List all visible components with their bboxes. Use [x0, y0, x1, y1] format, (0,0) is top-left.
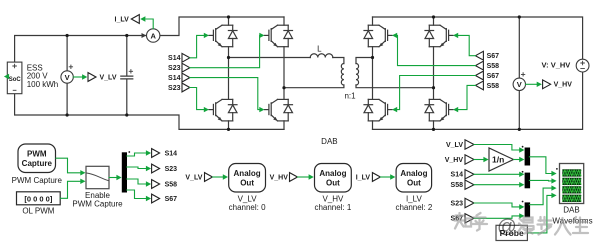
- block Analog Out channel 2: [396, 164, 432, 193]
- svg-text:Capture: Capture: [22, 159, 53, 168]
- svg-text:DAB: DAB: [563, 206, 579, 215]
- wire transformer secondary top to HV phase A: [356, 58, 373, 64]
- wire voltmeter to V_HV tag: [526, 83, 537, 85]
- svg-text:S23: S23: [165, 166, 178, 173]
- svg-text:DAB: DAB: [321, 137, 337, 146]
- svg-text:S14: S14: [165, 150, 178, 157]
- battery ESS: [7, 62, 22, 94]
- wire OL PWM to switch: [60, 181, 80, 198]
- wire mux3 to scope: [529, 188, 551, 205]
- voltmeter V_HV: [513, 78, 525, 90]
- wire gain to mux1: [514, 159, 520, 161]
- watermark 知乎 @漫步人生: [455, 213, 589, 235]
- wire HV top bus: [373, 17, 583, 59]
- tag S67 (to T7): [475, 71, 483, 80]
- svg-text:V: V: [517, 80, 522, 89]
- inductor L: [310, 54, 333, 58]
- svg-text:@: @: [497, 216, 517, 238]
- ammeter A: [142, 33, 147, 38]
- wire V_HV to Analog Out 1: [298, 176, 309, 178]
- svg-text:L: L: [317, 45, 322, 54]
- svg-text:channel: 0: channel: 0: [229, 203, 266, 212]
- svg-text:S58: S58: [487, 83, 500, 90]
- ESS SoC output arrow: [4, 74, 9, 79]
- block Enable PWM Capture switch: [86, 166, 109, 188]
- LV gate From-tags S14/S23: [182, 53, 190, 92]
- wire HV voltmeter branch: [518, 17, 520, 129]
- svg-text:PWM Capture: PWM Capture: [12, 176, 63, 185]
- tag S23 (to T2): [182, 63, 190, 72]
- IGBT T7 (HV leg3 bottom, mirrored): [364, 99, 392, 121]
- svg-text:S67: S67: [487, 73, 500, 80]
- wire switch to demux: [109, 177, 116, 179]
- wire LV leg1: [228, 17, 230, 129]
- svg-text:S58: S58: [451, 182, 464, 189]
- wire V_HV tag to gain: [474, 159, 483, 161]
- tag S58 (to T5): [475, 61, 483, 70]
- wire LV phase A to inductor: [229, 57, 311, 59]
- tag S58 (to T8): [475, 81, 483, 90]
- IGBT T4 (LV leg2 bottom): [265, 99, 293, 121]
- wire ESS bottom rail: [15, 94, 284, 130]
- tag S23: [465, 198, 474, 207]
- wire I_LV to Analog Out 2: [380, 176, 390, 178]
- wire demux to S67: [127, 190, 146, 199]
- svg-text:S58: S58: [165, 181, 178, 188]
- wire S23 to mux3: [474, 203, 519, 207]
- block PWM Capture: [18, 144, 56, 173]
- wire HV leg4: [433, 17, 435, 129]
- svg-text:Analog: Analog: [234, 169, 261, 178]
- svg-text:S14: S14: [451, 172, 464, 179]
- svg-text:V_LV: V_LV: [185, 174, 202, 181]
- wire LV voltmeter branch: [66, 36, 68, 116]
- HV gate From-tags S67/S58: [475, 51, 483, 90]
- wire S67 to T7 gate: [397, 76, 475, 110]
- svg-text:S23: S23: [451, 200, 464, 207]
- svg-text:PWM: PWM: [27, 149, 47, 158]
- svg-text:V_HV: V_HV: [554, 82, 573, 89]
- wire S14 to mux2: [474, 173, 519, 175]
- svg-text:Out: Out: [407, 178, 421, 187]
- svg-text:V: V: [65, 73, 70, 82]
- wire inductor to transformer primary: [333, 58, 344, 64]
- svg-text:S14: S14: [168, 75, 181, 82]
- svg-text:OL PWM: OL PWM: [22, 207, 54, 216]
- svg-text:I_LV: I_LV: [356, 174, 371, 181]
- svg-text:Out: Out: [326, 178, 340, 187]
- wire demux to S23: [127, 167, 146, 169]
- wire ESS top rail: [15, 36, 147, 63]
- tag S14 (to T4): [182, 73, 190, 82]
- capacitor C_LV: [121, 36, 133, 116]
- gate wires (green): [190, 35, 476, 109]
- svg-text:Analog: Analog: [319, 169, 346, 178]
- transformer TR primary winding: [341, 64, 344, 86]
- IGBT T8 (HV leg4 bottom, mirrored): [425, 99, 453, 121]
- svg-text:V: V_HV: V: V_HV: [542, 60, 571, 69]
- svg-text:PWM Capture: PWM Capture: [72, 200, 123, 209]
- tag V_HV: [543, 80, 551, 89]
- IGBT T2 (LV leg2 top): [265, 25, 293, 47]
- svg-text:n:1: n:1: [344, 92, 356, 101]
- wire S67 to T6 gate: [458, 35, 475, 55]
- wire demux to S58: [127, 179, 146, 184]
- wire S23 to T3 gate: [190, 88, 204, 110]
- gain 1/n: [489, 148, 514, 171]
- tag S23 (to T3): [182, 83, 190, 92]
- svg-text:S23: S23: [168, 65, 181, 72]
- wire S67 to mux3: [474, 216, 519, 218]
- svg-text:channel: 1: channel: 1: [314, 203, 351, 212]
- mux bar 1: [525, 148, 531, 166]
- svg-text:S23: S23: [168, 85, 181, 92]
- svg-text:SoC: SoC: [9, 77, 22, 83]
- demux bar PWM: [122, 152, 127, 192]
- wire mux1 to scope: [529, 157, 551, 174]
- demux output wires: [127, 153, 146, 199]
- wire S58 to T5 gate: [397, 35, 475, 65]
- svg-text:V_LV: V_LV: [100, 74, 117, 81]
- mux bar 2: [525, 173, 531, 189]
- svg-text:S67: S67: [487, 53, 500, 60]
- IGBT T5 (HV leg3 top, mirrored): [364, 25, 392, 47]
- tag S14 (to T1): [182, 53, 190, 62]
- wire transformer secondary bottom to HV phase B: [356, 85, 434, 88]
- wire transformer primary bottom to LV phase B: [284, 85, 344, 88]
- svg-text:A: A: [150, 31, 156, 40]
- svg-text:S67: S67: [165, 196, 178, 203]
- svg-text:Analog: Analog: [400, 169, 427, 178]
- svg-text:S14: S14: [168, 55, 181, 62]
- tag I_LV: [131, 15, 139, 24]
- svg-text:I_LV: I_LV: [115, 16, 130, 23]
- svg-text:1/n: 1/n: [492, 154, 504, 164]
- wire V_LV to Analog Out 0: [213, 176, 223, 178]
- wire probe to scope: [528, 195, 552, 233]
- mux bar 3: [525, 202, 531, 217]
- from tags column: [465, 140, 474, 223]
- wire HV bottom bus: [373, 72, 583, 129]
- wire V_LV to mux1: [474, 145, 519, 151]
- tag S14: [465, 170, 474, 179]
- svg-text:V_HV: V_HV: [270, 174, 289, 181]
- svg-text:S58: S58: [487, 63, 500, 70]
- IGBT T1 (LV leg1 top): [209, 25, 237, 47]
- wire voltmeter to V_LV tag: [73, 76, 82, 78]
- scope DAB Waveforms: [556, 168, 558, 170]
- transformer TR secondary winding: [356, 64, 359, 86]
- svg-text:Out: Out: [240, 178, 254, 187]
- wire S58 to T8 gate: [458, 85, 475, 109]
- tag V_LV: [465, 140, 474, 149]
- svg-text:V_LV: V_LV: [446, 142, 463, 149]
- tag V_LV: [88, 73, 96, 82]
- tag S58: [465, 180, 474, 189]
- wire S14 to T4 gate: [190, 78, 260, 110]
- IGBT T6 (HV leg4 top, mirrored): [425, 25, 453, 47]
- wire ammeter to LV bridge top bus: [160, 17, 284, 36]
- wire PWM Capture to switch: [56, 158, 80, 173]
- wire S58 to mux2: [474, 184, 519, 186]
- wire mux2 to scope: [529, 179, 551, 182]
- voltage source V:V_HV: [576, 59, 589, 72]
- tag S67: [465, 214, 474, 223]
- wire demux to S14: [127, 153, 146, 156]
- svg-text:100 kWh: 100 kWh: [27, 80, 59, 89]
- tag S67 (to T6): [475, 51, 483, 60]
- tag V_HV: [465, 155, 474, 164]
- svg-text:channel: 2: channel: 2: [395, 203, 432, 212]
- svg-text:V_HV: V_HV: [445, 157, 464, 164]
- block Analog Out channel 1: [315, 164, 352, 193]
- IGBT T3 (LV leg1 bottom): [209, 99, 237, 121]
- block Analog Out channel 0: [229, 164, 266, 193]
- wire ammeter to I_LV tag: [146, 19, 153, 29]
- svg-text:[0 0 0 0]: [0 0 0 0]: [24, 194, 52, 203]
- wire LV leg2: [283, 17, 285, 129]
- goto tags S14/S23/S58/S67: [152, 149, 160, 203]
- block OL PWM constant: [17, 192, 61, 205]
- wire S14 to T1 gate: [190, 35, 204, 57]
- voltmeter V_LV: [61, 71, 73, 83]
- wire HV leg3: [372, 17, 374, 129]
- block Probe: [496, 225, 527, 240]
- wire S23 to T2 gate: [190, 35, 260, 67]
